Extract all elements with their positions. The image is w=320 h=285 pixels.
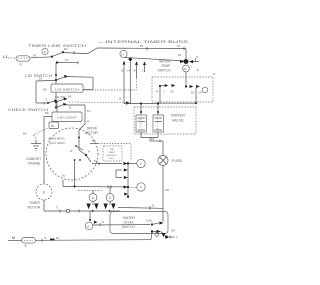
open terminal xyxy=(66,209,69,212)
svg-text:LEVEL: LEVEL xyxy=(124,221,135,225)
svg-text:FUSE: FUSE xyxy=(172,158,183,163)
wire contact row to fuse line xyxy=(118,207,163,210)
wire riser to internal timer buss xyxy=(88,48,97,54)
labels near blob xyxy=(178,54,200,72)
svg-text:D: D xyxy=(157,128,159,131)
svg-text:BR: BR xyxy=(166,189,170,192)
label MAIN WDG / AUX WDG xyxy=(48,137,65,145)
timer motor xyxy=(36,184,52,200)
timer contact arrows xyxy=(123,57,147,65)
wire bus below lid switch box xyxy=(55,92,57,107)
svg-text:BU: BU xyxy=(65,59,69,62)
tick TL and BK on timer motor line xyxy=(56,207,79,213)
svg-text:BK: BK xyxy=(140,45,144,48)
svg-text:SWITCH: SWITCH xyxy=(158,69,172,73)
svg-text:Y: Y xyxy=(191,66,193,69)
svg-text:BR: BR xyxy=(68,96,72,99)
svg-text:FRAME: FRAME xyxy=(28,162,41,166)
svg-text:START: START xyxy=(108,151,116,154)
label WATER VALVE xyxy=(171,113,185,123)
node D (circled letter) xyxy=(42,48,48,54)
wire start winding to terminal 2 xyxy=(92,160,122,165)
water level switch box xyxy=(110,212,168,234)
svg-text:8: 8 xyxy=(109,196,111,200)
junction dot node 2 xyxy=(127,162,129,164)
main line to timer motor xyxy=(44,210,120,212)
svg-text:TEMP: TEMP xyxy=(161,64,171,68)
svg-text:CABINET: CABINET xyxy=(26,157,42,161)
svg-text:BR: BR xyxy=(172,230,176,233)
terminal 4 (circled) xyxy=(137,183,145,191)
svg-text:CAP: CAP xyxy=(110,148,115,151)
junction blob right xyxy=(180,59,199,64)
tick BU on buss xyxy=(177,45,184,50)
svg-text:LID LIGHT: LID LIGHT xyxy=(57,115,77,119)
lid sw contact upper xyxy=(55,96,72,104)
water valve top wire xyxy=(124,102,197,104)
junction dot xyxy=(51,56,53,58)
tick BK on buss xyxy=(140,45,147,50)
dashed stub below motor xyxy=(78,190,102,192)
label WATER LEVEL SWITCH xyxy=(122,216,136,229)
verticals to water valve xyxy=(83,61,145,103)
valve coil COLD xyxy=(153,115,164,132)
wire to drive motor top xyxy=(67,105,91,139)
cap start box xyxy=(103,146,122,161)
label DRIVE MOTOR xyxy=(85,127,98,136)
svg-text:BK: BK xyxy=(33,55,37,58)
svg-text:VALVE: VALVE xyxy=(172,118,185,123)
buss drop right xyxy=(185,49,187,60)
timer motor vertical wire xyxy=(43,117,45,212)
svg-text:BK: BK xyxy=(191,92,195,95)
svg-text:BK: BK xyxy=(39,78,43,81)
svg-text:O: O xyxy=(140,123,142,126)
water level empty contact xyxy=(151,230,175,239)
start switch arrow into node xyxy=(123,162,127,165)
water valve box xyxy=(134,107,196,134)
lid light box xyxy=(52,112,82,122)
svg-text:L1: L1 xyxy=(3,54,8,59)
svg-text:6: 6 xyxy=(92,196,94,200)
svg-text:BK: BK xyxy=(178,54,182,57)
svg-text:SWITCH: SWITCH xyxy=(122,225,136,229)
lid switch contact xyxy=(56,75,93,80)
svg-text:WATER: WATER xyxy=(159,60,171,64)
svg-text:BU: BU xyxy=(87,110,91,113)
check switch contact xyxy=(47,99,58,112)
svg-text:MOTOR: MOTOR xyxy=(28,206,41,210)
svg-text:CHECK SWITCH: CHECK SWITCH xyxy=(8,108,49,112)
svg-text:BK: BK xyxy=(45,111,49,115)
svg-text:3O: 3O xyxy=(121,70,124,73)
connector P1 (line cord plug) xyxy=(8,56,30,66)
timer line switch contact pole 2 xyxy=(56,59,78,64)
valve coil verticals xyxy=(140,104,159,116)
lid switch box xyxy=(51,84,83,92)
svg-text:BK: BK xyxy=(23,132,27,136)
svg-text:BK: BK xyxy=(56,237,60,240)
circled 14 xyxy=(120,50,127,57)
timer contacts on main line xyxy=(86,204,115,213)
svg-text:BU: BU xyxy=(62,175,66,178)
internal timer switch bus xyxy=(125,58,186,62)
lid sw contact lower xyxy=(55,103,72,110)
wire labels xyxy=(121,70,146,73)
label box BK xyxy=(49,122,59,129)
start switch arrows on wire xyxy=(124,185,128,188)
check switch wire xyxy=(36,99,49,105)
connector P2 (neutral plug) xyxy=(22,238,36,248)
terminal 6 (circled) xyxy=(89,191,97,206)
water level full contact xyxy=(151,221,164,225)
valve bottom wires xyxy=(141,132,163,142)
start switch mid contact xyxy=(116,168,130,198)
svg-text:2: 2 xyxy=(140,162,142,166)
wire into lid light box xyxy=(44,111,52,116)
wire N lead xyxy=(8,240,22,242)
svg-text:—INTERNAL TIMER BUSS: —INTERNAL TIMER BUSS xyxy=(98,39,189,44)
svg-text:FULL: FULL xyxy=(146,219,153,223)
junction dots on bus xyxy=(55,74,57,81)
svg-text:1Y: 1Y xyxy=(142,70,145,73)
terminal 8 (circled) xyxy=(106,187,114,205)
svg-text:13: 13 xyxy=(183,67,187,71)
svg-text:E: E xyxy=(43,190,46,195)
wire terminal 10 to water level switch xyxy=(93,221,150,226)
wire pole1 to riser xyxy=(64,51,88,54)
wire internal timer buss line xyxy=(97,47,186,50)
svg-text:BU: BU xyxy=(171,91,175,94)
junction dot xyxy=(127,186,129,188)
svg-text:(1): (1) xyxy=(19,63,22,66)
svg-text:TIMER: TIMER xyxy=(29,201,40,205)
svg-text:ONLY: ONLY xyxy=(109,158,115,160)
wire lid switch to check switch leg xyxy=(36,78,56,104)
label CABINET FRAME xyxy=(26,157,42,166)
drive motor circle xyxy=(46,128,98,180)
svg-text:N: N xyxy=(12,235,15,240)
wire from empty contact right xyxy=(166,236,178,239)
svg-text:MODELS: MODELS xyxy=(107,155,117,157)
svg-text:BU: BU xyxy=(64,48,68,51)
svg-text:BK: BK xyxy=(51,124,55,128)
svg-text:BK: BK xyxy=(92,139,96,143)
svg-text:MOTOR: MOTOR xyxy=(85,131,98,135)
circled 13 xyxy=(183,65,190,86)
water temp switch box xyxy=(152,77,213,102)
fuse wire down xyxy=(163,166,169,223)
temp switch left contact xyxy=(156,84,175,103)
wire N riser xyxy=(151,233,152,240)
temp switch right contact xyxy=(185,85,208,103)
svg-text:14: 14 xyxy=(121,52,125,56)
label WATER TEMP SWITCH xyxy=(158,60,172,73)
wire L1 to timer line switch xyxy=(31,57,53,58)
tick W on fuse feed xyxy=(150,205,155,210)
svg-text:H: H xyxy=(140,119,142,122)
svg-text:DRIVE: DRIVE xyxy=(87,127,98,131)
wire to cabinet ground xyxy=(23,128,48,141)
wire dashed to water valve xyxy=(69,101,130,105)
svg-text:TIMER LINE SWITCH: TIMER LINE SWITCH xyxy=(28,43,86,48)
svg-text:(AUX WDG): (AUX WDG) xyxy=(50,141,65,145)
svg-text:10: 10 xyxy=(86,224,90,228)
wire motor to cap start xyxy=(90,139,131,160)
wire corner into lid switch box xyxy=(83,77,93,89)
svg-text:OR: OR xyxy=(198,92,202,95)
svg-text:Y: Y xyxy=(164,91,166,94)
svg-text:BK: BK xyxy=(151,138,155,141)
wire to fuse xyxy=(162,141,164,156)
valve coil HOT xyxy=(136,115,147,132)
motor bottom wire to terminal 4 xyxy=(62,175,137,189)
terminal 2 (circled) xyxy=(129,159,145,167)
ground cabinet frame xyxy=(31,140,41,151)
svg-text:(2): (2) xyxy=(24,245,27,248)
wire to terminal 10 xyxy=(89,211,98,224)
svg-text:WATER: WATER xyxy=(123,216,135,220)
motor internal wiring xyxy=(70,138,91,187)
svg-text:BK: BK xyxy=(43,88,47,92)
svg-text:LID SWITCH: LID SWITCH xyxy=(55,87,79,91)
svg-text:BU: BU xyxy=(94,160,98,163)
label TIMER MOTOR xyxy=(28,201,41,210)
svg-text:4: 4 xyxy=(140,186,142,190)
svg-text:BU: BU xyxy=(177,45,181,48)
wire N line xyxy=(36,237,152,242)
bus down from node 2 xyxy=(127,164,129,197)
wire vertical bus x56 xyxy=(55,63,57,85)
fuse xyxy=(158,156,168,166)
terminal 10 (circled) xyxy=(85,222,93,230)
timer line switch contact pole 1 xyxy=(52,51,64,56)
